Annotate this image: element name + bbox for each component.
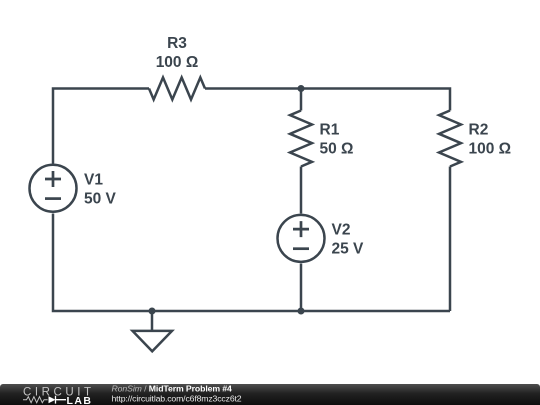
svg-text:R2: R2	[469, 122, 489, 139]
svg-text:50 Ω: 50 Ω	[320, 141, 354, 158]
wire bottom: V1 bottom down, bottom rail across to right	[53, 214, 450, 312]
wire V2 to bottom rail	[300, 264, 303, 312]
V2 plus sign	[293, 221, 309, 237]
svg-text:25 V: 25 V	[332, 241, 365, 258]
svg-text:50 V: 50 V	[84, 191, 117, 208]
resistor R1	[290, 111, 312, 167]
CircuitLab logo resistor squiggle	[23, 397, 48, 403]
ground stub wire	[151, 311, 154, 331]
voltage source V1 body	[30, 165, 77, 212]
ground symbol	[133, 331, 173, 351]
svg-text:V1: V1	[84, 172, 103, 189]
wire top-left: V1 top to top rail corner to R3 left lead	[53, 89, 149, 164]
V1 plus sign	[45, 171, 61, 187]
svg-text:V2: V2	[332, 222, 351, 239]
wire R1 to V2	[300, 167, 303, 214]
wire top-right: R3 right lead to right rail corner	[205, 89, 450, 111]
resistor R2	[439, 111, 461, 167]
voltage source V2 body	[278, 215, 325, 262]
resistor R3	[149, 78, 205, 100]
junction node at ground	[149, 308, 156, 315]
svg-text:R3: R3	[167, 35, 187, 52]
svg-text:100 Ω: 100 Ω	[156, 54, 199, 71]
V1 minus sign	[45, 197, 61, 200]
junction node at V2 bottom	[298, 308, 305, 315]
V2 minus sign	[293, 247, 309, 250]
svg-text:R1: R1	[320, 122, 340, 139]
wire right rail: R2 bottom to bottom-right corner	[449, 167, 452, 312]
CircuitLab logo diode	[49, 396, 56, 403]
svg-text:100 Ω: 100 Ω	[469, 141, 512, 158]
footer bar	[0, 384, 540, 405]
junction node at R1 top	[298, 85, 305, 92]
wire R1 branch top: top rail to R1	[300, 89, 303, 111]
